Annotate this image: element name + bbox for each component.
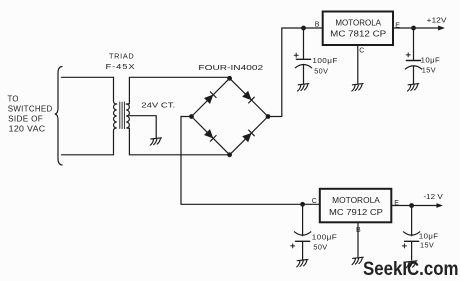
brace AC input — [55, 67, 62, 166]
wire AC bottom lead — [62, 154, 114, 156]
wire secondary bottom to bridge bottom — [129, 128, 229, 155]
label C4 value 10uF 15V — [419, 231, 439, 249]
capacitor C3 100uF 50V — [291, 204, 311, 259]
label TO SWITCHED SIDE OF 120 VAC — [8, 94, 53, 133]
wire U1 output +12V rail — [393, 27, 440, 29]
ground under C4 — [406, 261, 417, 268]
wire U1 pin C to ground — [357, 45, 359, 83]
diode D2 top-right — [243, 92, 254, 103]
node U1 output junction — [411, 26, 416, 31]
wire bridge edge top-left — [192, 78, 230, 116]
ground center tap — [150, 138, 161, 145]
svg-text:C: C — [359, 48, 364, 55]
svg-text:-12 V: -12 V — [424, 192, 443, 201]
svg-text:SIDE OF: SIDE OF — [8, 115, 43, 124]
diode D1 top-left — [205, 92, 216, 103]
svg-text:MC 7812 CP: MC 7812 CP — [330, 30, 387, 39]
wire bridge left node to regulator U2 input — [181, 117, 319, 205]
label C3 value 100uF 50V — [312, 232, 338, 251]
svg-text:MOTOROLA: MOTOROLA — [335, 19, 381, 28]
label U2 MOTOROLA MC 7912 CP — [329, 196, 384, 217]
node U2 output junction — [409, 203, 414, 208]
ground under U2 pin B — [352, 257, 363, 264]
ground under C2 — [408, 84, 419, 91]
node bridge right — [266, 114, 271, 119]
node U2 input junction — [300, 202, 305, 207]
wire U2 output -12V rail — [391, 205, 437, 207]
svg-text:50V: 50V — [313, 242, 327, 251]
arrow +12V — [439, 26, 445, 30]
wire secondary top to bridge top — [129, 77, 229, 104]
arrow -12V — [437, 204, 443, 208]
svg-text:TO: TO — [8, 94, 19, 103]
svg-text:FOUR-IN4002: FOUR-IN4002 — [198, 63, 263, 72]
svg-text:B: B — [315, 21, 320, 28]
capacitor C1 100uF 50V — [294, 28, 312, 84]
svg-text:MC 7912 CP: MC 7912 CP — [329, 208, 384, 217]
svg-text:120 VAC: 120 VAC — [9, 125, 46, 134]
svg-text:100μF: 100μF — [312, 56, 338, 65]
svg-text:F-45X: F-45X — [106, 62, 136, 71]
label TRIAD F-45X — [106, 52, 136, 71]
label U1 MOTOROLA MC 7812 CP — [330, 19, 387, 39]
svg-text:MOTOROLA: MOTOROLA — [332, 196, 380, 205]
diode D3 bottom-left — [205, 130, 216, 141]
wire bridge right node to regulator U1 input — [268, 28, 322, 117]
svg-text:10μF: 10μF — [419, 231, 439, 240]
svg-text:TRIAD: TRIAD — [109, 52, 134, 61]
wire bridge edge bottom-right — [230, 117, 268, 155]
label C1 value 100uF 50V — [312, 56, 338, 75]
svg-text:10μF: 10μF — [421, 56, 441, 65]
ground under C1 — [298, 84, 309, 91]
ground under C3 — [297, 260, 308, 267]
svg-text:+12V: +12V — [427, 16, 447, 25]
ground under U1 pin C — [352, 84, 363, 91]
transformer T1 primary winding — [114, 77, 117, 155]
transformer core — [120, 102, 125, 129]
node U1 input junction — [301, 26, 306, 31]
wire U2 pin B to ground — [357, 222, 359, 257]
svg-text:15V: 15V — [420, 241, 434, 250]
capacitor C4 10uF 15V — [402, 206, 419, 261]
wire center tap — [129, 116, 156, 138]
node bridge top — [227, 76, 232, 81]
wire bridge edge bottom-left — [192, 117, 230, 155]
svg-text:100μF: 100μF — [312, 232, 338, 241]
capacitor C2 10uF 15V — [405, 28, 421, 84]
diode D4 bottom-right — [243, 130, 254, 141]
svg-text:15V: 15V — [422, 65, 436, 74]
svg-text:50V: 50V — [314, 67, 328, 76]
svg-text:SWITCHED: SWITCHED — [8, 105, 53, 114]
wire AC top lead — [62, 76, 114, 78]
regulator U2 MC7912 box — [320, 189, 392, 223]
node bridge left — [189, 114, 194, 119]
node bridge bottom — [227, 152, 232, 157]
wire bridge edge top-right — [230, 78, 268, 116]
label C2 value 10uF 15V — [421, 56, 441, 75]
transformer T1 secondary winding — [126, 104, 129, 129]
regulator U1 MC7812 box — [323, 12, 393, 46]
svg-text:24V CT.: 24V CT. — [141, 101, 175, 110]
svg-text:C: C — [312, 198, 317, 205]
